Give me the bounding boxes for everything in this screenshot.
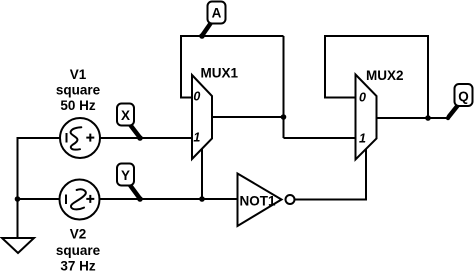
svg-text:X: X	[121, 108, 130, 123]
svg-text:NOT1: NOT1	[240, 194, 276, 209]
wire left rail	[17, 137, 19, 238]
wire top loop MUX1	[181, 36, 284, 98]
probe flag A	[203, 2, 226, 36]
probe flag X	[117, 104, 140, 138]
wire V2 left	[18, 198, 60, 200]
label V1	[56, 67, 101, 113]
wire MUX1 output	[212, 116, 284, 118]
wire V1 right to MUX1 input 1	[100, 137, 192, 139]
wire V1 left	[18, 137, 61, 139]
svg-text:0: 0	[193, 90, 200, 104]
svg-text:37 Hz: 37 Hz	[60, 259, 96, 271]
svg-text:Y: Y	[121, 168, 130, 183]
svg-text:V1: V1	[70, 67, 87, 82]
mux MUX1	[192, 75, 212, 159]
label V2	[56, 227, 101, 271]
svg-text:Q: Q	[458, 89, 469, 104]
svg-text:A: A	[212, 6, 222, 21]
svg-text:V2: V2	[70, 227, 87, 242]
wire V2 right to NOT1 input	[100, 198, 238, 200]
svg-text:50 Hz: 50 Hz	[60, 98, 96, 113]
wire MUX1 select	[201, 149, 203, 200]
svg-text:square: square	[56, 83, 101, 98]
probe flag Y	[117, 164, 140, 199]
svg-text:MUX1: MUX1	[201, 66, 239, 81]
ground	[2, 238, 34, 253]
wire feedback MUX2	[325, 36, 428, 118]
gate NOT1	[238, 174, 282, 227]
svg-text:square: square	[56, 243, 101, 258]
source V2	[60, 180, 100, 220]
svg-text:1: 1	[359, 132, 366, 146]
wire NOT1 output	[295, 149, 367, 200]
probe flag Q	[449, 84, 473, 117]
svg-text:0: 0	[359, 91, 366, 105]
wire feedback vertical at 283.5	[283, 36, 285, 138]
wire MUX2 output	[377, 117, 449, 119]
mux MUX2	[356, 75, 377, 160]
wire to MUX2 input 1	[284, 137, 356, 139]
source V1	[60, 118, 100, 158]
svg-text:MUX2: MUX2	[366, 68, 404, 83]
svg-text:1: 1	[193, 131, 200, 145]
